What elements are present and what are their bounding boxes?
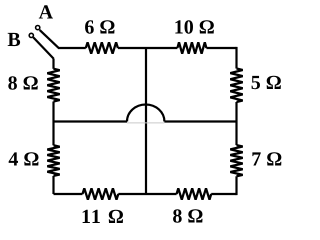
- svg-text:8 Ω: 8 Ω: [172, 206, 203, 228]
- svg-text:6 Ω: 6 Ω: [84, 17, 115, 39]
- svg-text:8 Ω: 8 Ω: [8, 72, 39, 94]
- svg-text:A: A: [39, 2, 54, 24]
- svg-text:4 Ω: 4 Ω: [8, 149, 39, 171]
- svg-text:7 Ω: 7 Ω: [251, 149, 282, 171]
- svg-text:11 Ω: 11 Ω: [81, 206, 125, 228]
- svg-text:10 Ω: 10 Ω: [174, 17, 215, 39]
- svg-text:B: B: [7, 29, 20, 51]
- svg-text:5 Ω: 5 Ω: [251, 72, 282, 94]
